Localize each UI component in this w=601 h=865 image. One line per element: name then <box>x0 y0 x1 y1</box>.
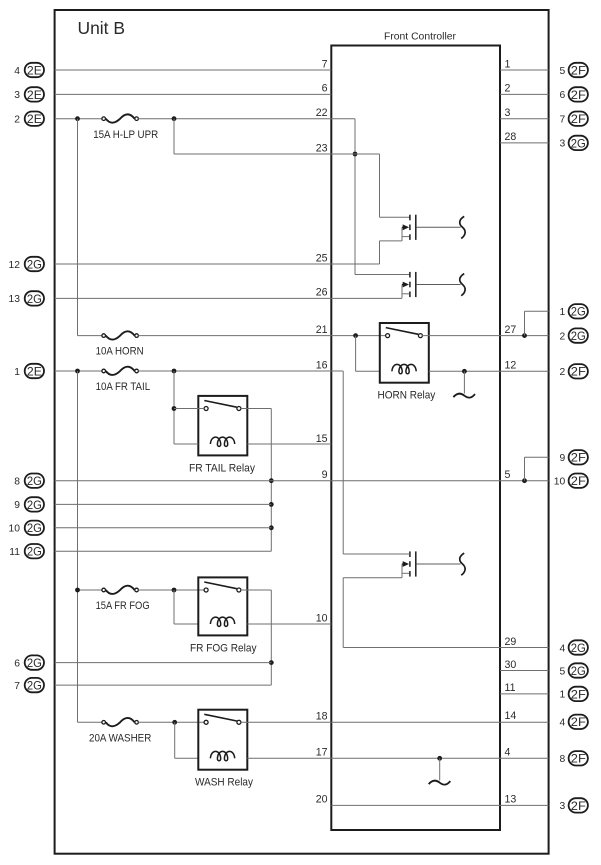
svg-text:2G: 2G <box>571 136 586 150</box>
svg-text:8: 8 <box>14 477 20 488</box>
svg-text:WASH Relay: WASH Relay <box>195 777 253 789</box>
svg-text:1: 1 <box>559 307 565 318</box>
svg-text:5: 5 <box>559 666 565 677</box>
svg-text:10: 10 <box>9 524 21 535</box>
svg-text:Front Controller: Front Controller <box>384 31 456 43</box>
svg-text:4: 4 <box>559 718 565 729</box>
svg-text:4: 4 <box>14 66 20 77</box>
svg-text:12: 12 <box>505 360 517 372</box>
svg-text:4: 4 <box>559 643 565 654</box>
svg-text:10A FR TAIL: 10A FR TAIL <box>96 381 151 393</box>
svg-text:29: 29 <box>505 636 517 648</box>
svg-text:15: 15 <box>316 433 328 445</box>
svg-text:10: 10 <box>554 477 566 488</box>
svg-text:23: 23 <box>316 142 328 154</box>
svg-text:16: 16 <box>316 359 328 371</box>
svg-text:2G: 2G <box>27 474 42 488</box>
svg-text:2F: 2F <box>571 715 586 729</box>
svg-text:2E: 2E <box>27 364 42 378</box>
svg-text:10: 10 <box>316 612 328 624</box>
svg-text:30: 30 <box>505 659 517 671</box>
svg-text:21: 21 <box>316 324 328 336</box>
svg-text:2F: 2F <box>571 474 586 488</box>
svg-text:1: 1 <box>14 367 20 378</box>
svg-text:2F: 2F <box>571 752 586 766</box>
svg-text:3: 3 <box>559 801 565 812</box>
svg-text:10A HORN: 10A HORN <box>96 346 144 358</box>
svg-text:2G: 2G <box>27 545 42 559</box>
svg-text:13: 13 <box>505 794 517 806</box>
svg-text:2G: 2G <box>27 257 42 271</box>
svg-text:2F: 2F <box>571 365 586 379</box>
svg-text:7: 7 <box>559 115 565 126</box>
svg-text:9: 9 <box>559 453 565 464</box>
svg-text:3: 3 <box>505 107 511 119</box>
svg-text:6: 6 <box>14 658 20 669</box>
svg-text:2F: 2F <box>571 63 586 77</box>
svg-text:7: 7 <box>322 58 328 70</box>
svg-text:7: 7 <box>14 681 20 692</box>
svg-text:2G: 2G <box>27 498 42 512</box>
svg-text:26: 26 <box>316 287 328 299</box>
svg-text:12: 12 <box>9 260 21 271</box>
svg-text:2F: 2F <box>571 88 586 102</box>
svg-text:15A FR FOG: 15A FR FOG <box>96 600 150 612</box>
svg-text:2: 2 <box>505 83 511 95</box>
svg-text:5: 5 <box>505 469 511 481</box>
svg-text:FR FOG Relay: FR FOG Relay <box>190 642 257 654</box>
svg-text:14: 14 <box>505 710 517 722</box>
svg-text:11: 11 <box>9 547 20 558</box>
svg-text:17: 17 <box>316 747 328 759</box>
svg-text:2G: 2G <box>571 641 586 655</box>
svg-text:2F: 2F <box>571 451 586 465</box>
svg-text:20: 20 <box>316 794 328 806</box>
svg-text:13: 13 <box>9 294 21 305</box>
svg-text:2G: 2G <box>27 656 42 670</box>
svg-text:6: 6 <box>322 83 328 95</box>
svg-text:18: 18 <box>316 710 328 722</box>
svg-text:2E: 2E <box>27 112 42 126</box>
svg-text:Unit B: Unit B <box>78 18 126 38</box>
svg-text:2G: 2G <box>27 521 42 535</box>
svg-text:8: 8 <box>559 754 565 765</box>
svg-text:2: 2 <box>559 367 565 378</box>
svg-text:HORN Relay: HORN Relay <box>378 390 436 402</box>
svg-text:1: 1 <box>505 58 511 70</box>
svg-text:11: 11 <box>505 682 516 694</box>
svg-text:2G: 2G <box>571 305 586 319</box>
svg-text:9: 9 <box>14 500 20 511</box>
svg-text:2: 2 <box>559 331 565 342</box>
svg-text:2E: 2E <box>27 63 42 77</box>
svg-text:15A H-LP UPR: 15A H-LP UPR <box>93 129 158 141</box>
svg-text:28: 28 <box>505 131 517 143</box>
svg-text:2: 2 <box>14 115 20 126</box>
svg-text:3: 3 <box>559 139 565 150</box>
svg-text:2E: 2E <box>27 88 42 102</box>
svg-text:9: 9 <box>322 469 328 481</box>
svg-text:2F: 2F <box>571 799 586 813</box>
svg-text:FR TAIL Relay: FR TAIL Relay <box>189 462 255 474</box>
svg-text:2G: 2G <box>571 664 586 678</box>
svg-text:2G: 2G <box>571 329 586 343</box>
svg-text:2G: 2G <box>27 679 42 693</box>
svg-text:22: 22 <box>316 107 328 119</box>
svg-text:5: 5 <box>559 66 565 77</box>
svg-text:20A WASHER: 20A WASHER <box>89 732 151 744</box>
svg-text:2G: 2G <box>27 292 42 306</box>
svg-text:6: 6 <box>559 90 565 101</box>
svg-text:3: 3 <box>14 90 20 101</box>
svg-text:27: 27 <box>505 324 517 336</box>
svg-text:4: 4 <box>505 747 511 759</box>
svg-text:25: 25 <box>316 252 328 264</box>
svg-text:2F: 2F <box>571 687 586 701</box>
svg-text:1: 1 <box>559 690 565 701</box>
svg-text:2F: 2F <box>571 112 586 126</box>
